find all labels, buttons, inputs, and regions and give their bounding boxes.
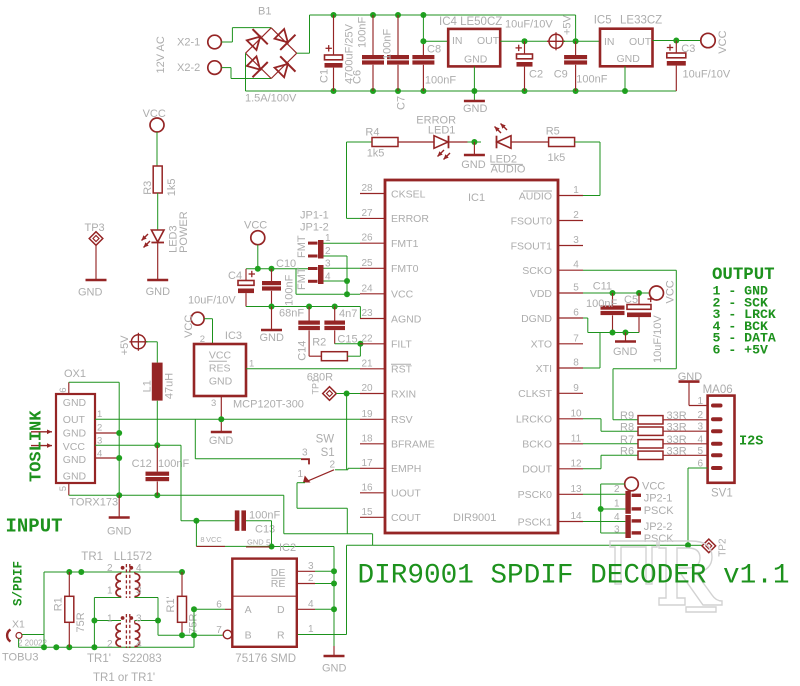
svg-text:6: 6 <box>58 388 69 393</box>
wire AGND to pin23 <box>360 318 367 320</box>
svg-text:3: 3 <box>211 398 216 409</box>
label VCC JP2 <box>642 481 665 493</box>
svg-text:2: 2 <box>97 423 102 434</box>
svg-text:3: 3 <box>136 613 142 624</box>
connector X2-1 <box>177 35 221 49</box>
wire R1 leads <box>68 572 70 647</box>
junction top rail 2 <box>78 569 84 575</box>
pin 21 RST <box>360 358 413 375</box>
svg-text:S22083: S22083 <box>122 653 162 665</box>
wire A input <box>194 609 225 635</box>
pin number OX1 3 <box>97 436 102 447</box>
wire LED2 to R5 <box>512 141 549 143</box>
wire AGND rail <box>246 307 360 319</box>
svg-text:1: 1 <box>573 185 579 196</box>
label C7 value <box>382 29 394 60</box>
pin 9 CLKST <box>518 383 583 400</box>
stub IC2 pin8 VCC <box>196 545 225 547</box>
svg-text:100nF: 100nF <box>586 298 617 310</box>
pin 5 VDD <box>530 283 583 300</box>
capacitor C8 <box>412 55 434 65</box>
svg-text:GND: GND <box>146 286 171 298</box>
svg-text:FMT1: FMT1 <box>391 238 419 250</box>
capacitor C7 leads <box>397 15 399 91</box>
svg-text:D: D <box>277 604 285 616</box>
label C15 <box>337 333 357 345</box>
svg-text:C11: C11 <box>593 280 612 292</box>
junction C8 IN <box>420 38 426 44</box>
svg-text:VCC: VCC <box>244 220 267 232</box>
stub IC2 pin5 GND <box>246 546 270 548</box>
diode D4 (bridge bottom-right) <box>272 56 296 80</box>
svg-text:GND: GND <box>209 435 234 447</box>
label PSCK upper <box>644 505 675 517</box>
voltage regulator IC4 <box>448 29 500 67</box>
wire IC3 RES to RST pin21 <box>246 368 360 370</box>
wire VCC cap rail <box>246 268 318 270</box>
capacitor C4 leads <box>245 269 247 307</box>
junction DGND C11 <box>610 330 616 336</box>
junction top bus C8 <box>420 12 426 18</box>
svg-text:DIR9001 SPDIF DECODER v1.1: DIR9001 SPDIF DECODER v1.1 <box>358 561 790 592</box>
label ERROR <box>416 115 456 127</box>
junction rail IC4 GND <box>471 88 477 94</box>
pin number JP2 4 <box>614 512 620 523</box>
wire JP1 pin1 to FMT1 <box>324 242 361 244</box>
wire IC5 OUT to VCC <box>653 40 702 42</box>
svg-text:PSCK1: PSCK1 <box>518 516 553 528</box>
label LED3 <box>168 225 180 253</box>
label C12 value <box>158 458 189 470</box>
pin 12 DOUT <box>522 458 583 475</box>
wire L1 to VCC row <box>156 401 158 446</box>
node OUTPUT 1 GND <box>713 284 768 299</box>
svg-text:OUTPUT: OUTPUT <box>712 266 775 285</box>
svg-text:4: 4 <box>573 260 579 271</box>
label IC5 <box>594 15 612 27</box>
svg-text:BFRAME: BFRAME <box>391 439 435 451</box>
transformer TR1' <box>116 614 140 648</box>
svg-text:LL1572: LL1572 <box>114 551 152 563</box>
svg-text:VDD: VDD <box>530 288 553 300</box>
wire R5 to pin1 AUDIO <box>575 142 600 196</box>
wire R8 to SV1 <box>663 430 708 432</box>
wire S1 pin1 to output rail <box>297 483 347 534</box>
wire VCC to R3 <box>156 132 158 166</box>
wire IC2 gnd drop <box>333 646 335 655</box>
svg-text:GND: GND <box>63 397 87 409</box>
svg-text:10: 10 <box>570 408 582 419</box>
svg-text:ERROR: ERROR <box>391 213 429 225</box>
junction top rail R1p <box>179 569 185 575</box>
pin 17 EMPH <box>360 458 421 475</box>
wire X1 center <box>22 572 44 647</box>
svg-text:C1: C1 <box>319 69 331 83</box>
svg-text:COUT: COUT <box>391 512 421 524</box>
label R8 <box>620 422 634 434</box>
diode D2 (bridge top-right) <box>272 26 296 50</box>
junction top bus C1 <box>331 12 337 18</box>
junction VCC rail <box>255 266 261 272</box>
wire OX1 GND drop <box>118 495 120 516</box>
pin IC2 6 A <box>216 600 232 611</box>
svg-text:19: 19 <box>361 409 373 420</box>
junction DE <box>331 568 337 574</box>
svg-text:POWER: POWER <box>178 211 190 253</box>
label TR1 <box>81 551 103 563</box>
svg-text:1: 1 <box>107 613 113 624</box>
label VCC C11 <box>665 280 677 303</box>
label C5 <box>624 294 638 306</box>
svg-text:MCP120T-300: MCP120T-300 <box>233 399 304 411</box>
svg-text:GND: GND <box>463 103 488 115</box>
svg-text:TP2: TP2 <box>718 538 729 557</box>
jumper JP2-1 <box>625 491 641 514</box>
junction C9 top <box>573 38 579 44</box>
svg-text:21: 21 <box>361 358 373 369</box>
supply VCC top right <box>701 33 715 47</box>
connector X2-2 <box>177 61 221 75</box>
wire TP3 to GND <box>95 246 97 280</box>
label 1.5A/100V <box>245 93 297 105</box>
resistor R3 <box>153 166 162 193</box>
wire rail to IC2 enable <box>196 546 334 646</box>
pin 3 FSOUT1 <box>511 235 583 252</box>
svg-text:TORX173: TORX173 <box>69 497 118 509</box>
svg-text:2: 2 <box>325 246 331 257</box>
pin number OX1 5 <box>58 486 69 491</box>
svg-text:UOUT: UOUT <box>391 488 421 500</box>
svg-text:2: 2 <box>107 639 113 650</box>
pin IC2 4 D <box>297 599 334 610</box>
pin number JP1 1 <box>325 233 331 244</box>
svg-text:6: 6 <box>573 308 579 319</box>
wire XTI to rail <box>583 333 600 369</box>
svg-text:4: 4 <box>614 512 620 523</box>
label R3 <box>142 181 154 195</box>
svg-text:SV1: SV1 <box>711 487 733 499</box>
svg-text:RE: RE <box>271 578 286 590</box>
wire GND staircase to switch net <box>119 495 372 545</box>
wire TR1 pin4 <box>134 572 136 574</box>
label R6 value <box>667 446 687 458</box>
svg-text:12V AC: 12V AC <box>155 36 167 73</box>
junction rail C7 <box>395 88 401 94</box>
label C10 <box>276 258 296 270</box>
pin number TR1' 3 <box>136 613 142 624</box>
capacitor C12 <box>146 472 170 482</box>
svg-text:A: A <box>245 604 252 616</box>
label IC2 <box>279 542 296 554</box>
svg-text:15: 15 <box>361 507 373 518</box>
svg-text:2: 2 <box>107 563 113 574</box>
pin number SV1 4 <box>697 434 703 445</box>
resistor R7 <box>638 440 663 448</box>
svg-text:GND: GND <box>63 454 87 466</box>
junction C11 top <box>610 290 616 296</box>
pin number SV1 5 <box>697 446 703 457</box>
svg-text:R5: R5 <box>546 125 560 137</box>
svg-text:1k5: 1k5 <box>548 152 566 164</box>
label R4 <box>365 127 379 139</box>
svg-text:10uF/10V: 10uF/10V <box>188 295 236 307</box>
label IC4 LE50CZ <box>439 16 502 28</box>
pin number TR1 1 <box>107 586 113 597</box>
junction JP1 common <box>344 291 350 297</box>
bridge rectifier B1 frame <box>246 28 297 79</box>
label +5V top <box>562 14 574 35</box>
svg-text:AUDIO: AUDIO <box>491 164 526 176</box>
inductor L1 <box>152 363 163 401</box>
label R1' <box>165 596 177 612</box>
wire DOUT route <box>583 455 638 469</box>
ground DGND <box>613 342 638 359</box>
diode D3 (bridge bottom-left) <box>244 54 268 78</box>
testpoint TP3 <box>85 222 105 245</box>
wire rail to TP2 <box>688 544 702 546</box>
wire TR1' pin3 <box>135 621 158 624</box>
svg-text:+5V: +5V <box>119 335 131 356</box>
svg-text:75R: 75R <box>75 612 87 632</box>
junction TR pin1 <box>91 618 97 624</box>
label JP2-1 <box>644 493 673 505</box>
ground IC4 <box>463 101 488 115</box>
wire S1 pin2 to EMPH <box>335 468 360 470</box>
capacitor C4 <box>238 271 255 293</box>
svg-text:3: 3 <box>697 422 703 433</box>
label OX1 <box>64 368 86 380</box>
resistor R8 <box>638 427 663 435</box>
wire TR1' pin2 <box>120 646 122 649</box>
junction rail C1 <box>331 88 337 94</box>
capacitor C6 leads <box>372 15 374 91</box>
junction JP1 pin4 <box>344 278 350 284</box>
svg-text:L1: L1 <box>142 380 154 392</box>
junction D <box>331 606 337 612</box>
svg-text:100nF: 100nF <box>382 29 394 60</box>
capacitor C12 leads <box>156 445 158 495</box>
switch S1 lever <box>303 470 334 483</box>
supply VCC JP2 <box>625 477 639 491</box>
resistor R2 <box>321 352 347 361</box>
wire DGND drop <box>625 333 627 342</box>
svg-text:VCC: VCC <box>143 108 166 120</box>
node INPUT <box>6 516 63 538</box>
svg-text:7: 7 <box>216 625 222 636</box>
svg-text:BCKO: BCKO <box>522 439 552 451</box>
junction rail x44 <box>41 644 47 650</box>
label C9 value <box>576 74 607 86</box>
svg-text:VCC: VCC <box>209 350 232 362</box>
label 75176 SMD <box>235 653 296 665</box>
svg-text:68nF: 68nF <box>279 307 304 319</box>
label C2 value <box>505 19 553 31</box>
svg-text:R3: R3 <box>142 181 154 195</box>
junction OX1 GND <box>116 492 122 498</box>
svg-text:4: 4 <box>697 434 703 445</box>
svg-text:20: 20 <box>361 383 373 394</box>
pin 23 AGND <box>360 308 422 325</box>
label R7 <box>620 434 634 446</box>
label C3 value <box>683 69 731 81</box>
wire IC3 GND pin3 <box>220 396 222 419</box>
svg-text:2: 2 <box>697 410 703 421</box>
label FMT upper <box>296 235 308 258</box>
wire IC4 OUT to +5V <box>500 40 549 42</box>
pin number TR1' 2 <box>107 639 113 650</box>
label VCC top right <box>717 30 729 53</box>
junction C3 top <box>673 38 679 44</box>
svg-text:8: 8 <box>200 535 204 544</box>
svg-text:XTO: XTO <box>531 339 552 351</box>
ground C4 C10 <box>260 330 285 344</box>
label R2 value <box>307 372 333 384</box>
svg-text:100nF: 100nF <box>357 17 369 48</box>
wire JP1 pin4 <box>324 280 348 282</box>
junction rail x94 <box>91 644 97 650</box>
pin number SV1 6 <box>697 459 703 470</box>
label C11 value <box>586 298 617 310</box>
wire VCC JP2 bracket <box>601 484 626 533</box>
line driver IC2 75176 <box>232 559 296 647</box>
capacitor C7 <box>387 55 409 65</box>
capacitor C13 <box>235 510 246 530</box>
svg-text:10uF/10V: 10uF/10V <box>652 315 664 363</box>
ground IC2 <box>322 656 347 675</box>
svg-text:LE33CZ: LE33CZ <box>620 15 662 27</box>
label R5 value <box>548 152 566 164</box>
svg-text:GND: GND <box>63 428 87 440</box>
label TORX173 <box>69 497 118 509</box>
svg-text:S/PDIF: S/PDIF <box>12 561 26 606</box>
wire IC3 GND drop <box>220 419 222 431</box>
wire VCC jog to pin24 <box>296 269 360 294</box>
svg-text:SCKO: SCKO <box>522 265 552 277</box>
svg-text:R6: R6 <box>620 446 634 458</box>
arrow TOSLINK in 1 <box>31 430 52 435</box>
svg-text:GND: GND <box>63 470 87 482</box>
wire VCC branch down <box>181 445 235 521</box>
svg-text:X2-2: X2-2 <box>177 62 200 74</box>
svg-text:GND: GND <box>322 663 347 675</box>
label +5V L1 <box>119 335 131 356</box>
svg-text:2: 2 <box>330 460 336 471</box>
junction C5 top <box>636 290 642 296</box>
label C4 value <box>188 295 236 307</box>
pin number JP2 3 <box>614 525 620 536</box>
svg-text:1k5: 1k5 <box>166 179 178 197</box>
resistor R5 <box>549 138 575 147</box>
capacitor C15 <box>324 321 345 331</box>
svg-text:FMT0: FMT0 <box>391 263 419 275</box>
label C4 <box>228 270 242 282</box>
junction rail IC5 GND <box>622 88 628 94</box>
label X1 <box>12 619 25 631</box>
wire B input row <box>158 634 223 636</box>
wire GND bottom rail <box>246 90 677 92</box>
pin number S1 1 <box>298 469 304 480</box>
capacitor C2 <box>516 45 533 67</box>
label PSCK lower <box>644 533 675 545</box>
resistor R6 <box>638 451 663 459</box>
label SW <box>316 434 335 446</box>
svg-text:C3: C3 <box>681 43 695 55</box>
node OUTPUT 3 LRCK <box>713 307 776 322</box>
svg-text:DIR9001: DIR9001 <box>453 512 496 524</box>
svg-text:GND: GND <box>678 371 703 383</box>
label IC2 pin5 GND <box>247 538 271 548</box>
svg-text:PSCK0: PSCK0 <box>518 489 553 501</box>
wire 75176 R to rail <box>297 545 347 634</box>
arrow TOSLINK in 2 <box>31 443 52 448</box>
svg-text:IC5: IC5 <box>594 15 612 27</box>
pin 19 RSV <box>360 409 413 426</box>
node OUTPUT 2 SCK <box>713 295 768 310</box>
svg-text:1: 1 <box>249 359 254 370</box>
junction AGND C15 <box>332 304 338 310</box>
resistor R1 <box>65 596 74 622</box>
junction top bus C6 <box>370 12 376 18</box>
svg-text:R4: R4 <box>365 127 379 139</box>
label C10 value <box>284 274 296 305</box>
pin number TR1 2 <box>107 563 113 574</box>
pin 4 SCKO <box>522 260 583 277</box>
svg-text:5: 5 <box>58 486 69 491</box>
junction rail C2 <box>522 88 528 94</box>
pin IC2 1 R <box>308 624 314 635</box>
wire C8 to IC4 IN <box>423 40 448 42</box>
svg-text:C8: C8 <box>427 44 441 56</box>
capacitor C1 leads <box>333 15 335 91</box>
pin number OX1 1 <box>97 409 102 420</box>
svg-text:OUT: OUT <box>477 35 500 47</box>
svg-text:VCC: VCC <box>206 535 222 544</box>
wire VIN top bus <box>310 15 576 41</box>
supply VCC left <box>143 108 166 132</box>
svg-text:R7: R7 <box>620 434 634 446</box>
ground LED junction <box>461 155 486 171</box>
junction VCC C12 <box>154 442 160 448</box>
pin 24 VCC <box>360 283 414 300</box>
wire R3 to LED3 <box>157 193 159 230</box>
jumper JP1-1 <box>308 240 324 259</box>
wire DGND rail <box>588 332 639 334</box>
node OUTPUT 5 DATA <box>713 331 776 346</box>
svg-text:TR1 or TR1': TR1 or TR1' <box>93 672 155 684</box>
svg-text:FMT: FMT <box>296 267 308 290</box>
junction AGND C14 <box>306 304 312 310</box>
label C11 <box>593 280 612 292</box>
junction C12 bottom <box>154 492 160 498</box>
svg-text:2: 2 <box>614 484 620 495</box>
capacitor C11 leads <box>612 293 614 333</box>
capacitor C8 leads <box>422 15 424 91</box>
label R1' value <box>188 613 200 633</box>
svg-text:C13: C13 <box>255 524 275 536</box>
label R9 <box>620 410 634 422</box>
svg-text:5: 5 <box>573 283 579 294</box>
ground SV1 pin1 <box>678 371 703 383</box>
svg-text:EMPH: EMPH <box>391 463 421 475</box>
wire R9 to SV1 <box>663 419 708 421</box>
junction RE <box>331 581 337 587</box>
svg-text:22: 22 <box>361 333 373 344</box>
pin IC2 3 DE <box>297 561 334 572</box>
wire R4 to LED1 <box>398 141 434 143</box>
svg-text:1: 1 <box>325 233 331 244</box>
wire OX1 pin4 <box>95 457 119 459</box>
label L1 value <box>164 373 176 399</box>
